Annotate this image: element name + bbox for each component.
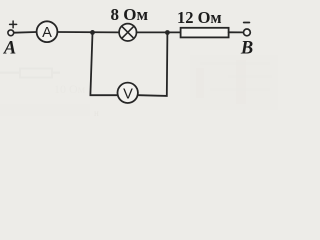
wire voltmeter to junction2	[139, 33, 168, 96]
svg-text:А: А	[3, 38, 16, 58]
node junction 1	[90, 30, 95, 35]
ammeter U1 circle	[37, 21, 58, 42]
svg-text:8 Ом: 8 Ом	[111, 5, 149, 24]
lamp EL1 circle	[119, 24, 136, 41]
wire junction1 down to voltmeter	[90, 33, 117, 95]
svg-text:н: н	[94, 108, 99, 116]
svg-text:10 Ом: 10 Ом	[54, 82, 86, 96]
wire resistor to terminal B	[229, 31, 244, 33]
plus sign	[10, 21, 17, 28]
minus sign	[244, 22, 250, 24]
svg-text:V: V	[123, 87, 133, 103]
resistor R1 box	[181, 28, 229, 38]
lamp cross	[122, 26, 134, 38]
terminal B	[244, 29, 251, 36]
svg-text:12 Ом: 12 Ом	[177, 8, 222, 27]
terminal A	[8, 30, 14, 36]
node junction 2	[165, 30, 170, 35]
ghost bleed-through left	[0, 55, 278, 118]
wire ammeter to lamp	[58, 31, 120, 33]
svg-text:В: В	[240, 39, 253, 59]
voltmeter U2 circle	[118, 83, 138, 103]
wire lamp to resistor	[137, 31, 181, 33]
svg-text:A: A	[42, 25, 52, 41]
wire A to ammeter	[14, 31, 37, 34]
